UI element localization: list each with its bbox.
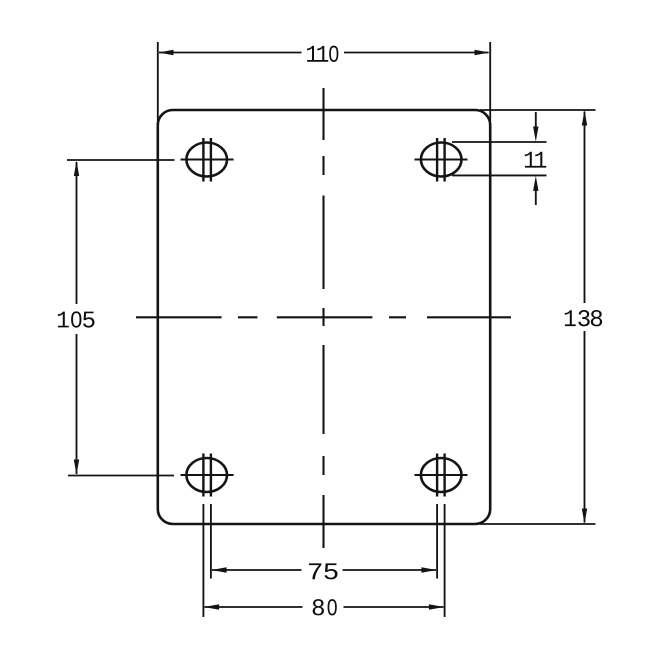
hole top-right slot line 80 [443, 138, 445, 182]
dim 105 extension line top [67, 159, 175, 161]
dim 80 extension line left [202, 504, 204, 617]
hole top-right crosshair [415, 159, 468, 161]
dim 110 extension line right [489, 42, 491, 121]
hole bottom-right [421, 458, 462, 492]
hole top-right slot line 75 [436, 138, 438, 182]
horizontal centerline [136, 316, 511, 318]
hole top-right [421, 143, 462, 177]
dim 11 arrow down [533, 127, 538, 142]
dim 80 text [313, 599, 337, 615]
dim 75 arrow right [421, 567, 436, 572]
dim 11 leader below [535, 189, 537, 206]
dim 105 line [76, 162, 78, 474]
vertical centerline [322, 88, 324, 548]
dim 138 arrow bottom [582, 509, 587, 524]
hole bottom-left crosshair [181, 474, 234, 476]
dim 11 extension line bottom [452, 174, 547, 176]
dim 105 arrow bottom [74, 460, 79, 475]
dim 75 extension line right [436, 504, 438, 579]
dim 105 extension line bottom [68, 475, 174, 477]
dim 110 arrow right [475, 50, 490, 55]
dim 105 text [58, 311, 95, 327]
hole bottom-right crosshair [415, 474, 468, 476]
dim 80 arrow right [429, 604, 444, 609]
dim 11 leader above [535, 112, 537, 129]
hole bottom-left slot line 80 [202, 454, 204, 497]
dim 11 arrow up [533, 176, 538, 191]
dim 110 extension line left [157, 42, 159, 121]
dim 105 arrow top [74, 161, 79, 176]
dim 80 line [205, 606, 444, 608]
dim 138 line [584, 112, 586, 523]
hole bottom-left [186, 458, 227, 492]
dim 75 text [309, 563, 337, 579]
hole bottom-left slot line 75 [210, 454, 212, 497]
dim 138 extension line bottom [480, 523, 596, 525]
dim 80 arrow left [204, 604, 219, 609]
hole top-left crosshair [181, 159, 234, 161]
dim 11 extension line top [452, 141, 547, 143]
plate outline [158, 110, 490, 524]
dim 75 extension line left [210, 504, 212, 579]
dim 80 extension line right [444, 504, 446, 617]
dim 110 line [159, 52, 489, 54]
dim 11 text [525, 152, 546, 168]
dim 138 text [565, 310, 602, 326]
hole bottom-right slot line 75 [436, 454, 438, 497]
dim 138 arrow top [582, 110, 587, 125]
dim 110 arrow left [158, 50, 173, 55]
hole top-left slot line 75 [210, 138, 212, 182]
dim 75 arrow left [211, 567, 226, 572]
hole top-left slot line 80 [202, 138, 204, 182]
hole top-left [186, 143, 227, 177]
dim 110 text [307, 46, 338, 62]
hole bottom-right slot line 80 [443, 454, 445, 497]
dim 75 line [212, 569, 436, 571]
dim 138 extension line top [480, 109, 596, 111]
